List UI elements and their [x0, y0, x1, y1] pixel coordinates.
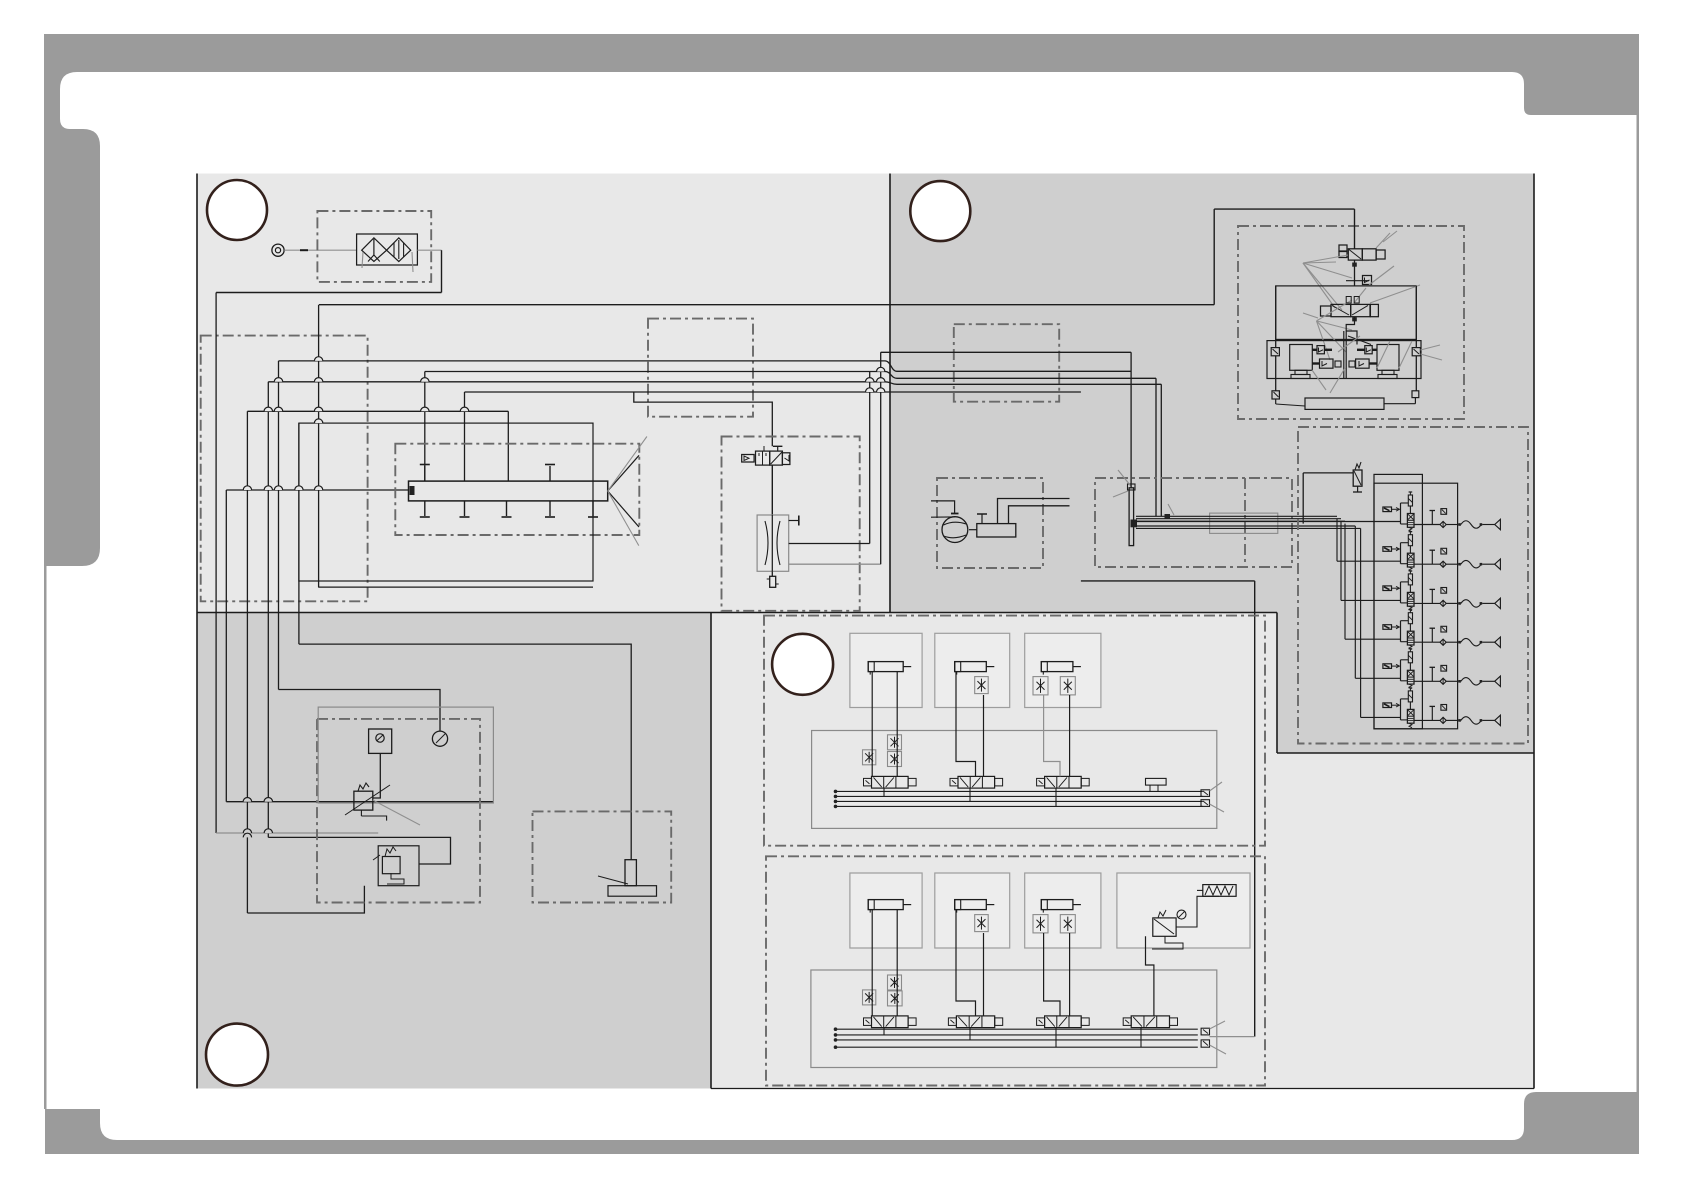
- nozzle dash-dot box: [533, 811, 672, 902]
- vacuum valve c: [1312, 359, 1341, 368]
- group2 valve 3: [1037, 1016, 1090, 1028]
- vacuum valve d: [1349, 359, 1377, 368]
- cylinder position ticks: [420, 465, 598, 518]
- dash-dot box left bundle: [201, 336, 368, 602]
- valve group V1 dash-dot box: [722, 437, 860, 611]
- group1 wires cylinders to valves: [872, 672, 1069, 807]
- wire bus A: [279, 361, 1132, 690]
- vacuum switch left: [1271, 348, 1279, 356]
- wire station risers: [1276, 286, 1417, 391]
- group2 sub-box A: [850, 873, 922, 948]
- cylinder B2: [955, 900, 995, 913]
- vacuum unit dash-dot box: [1238, 226, 1464, 419]
- vacuum switch right: [1412, 345, 1442, 360]
- wire jump bumps: [243, 357, 885, 838]
- node 2 circle: [910, 181, 970, 241]
- receiver tank: [969, 514, 1016, 537]
- valve bank dash-dot box: [1298, 427, 1528, 744]
- solenoid valve V2: [1303, 231, 1397, 263]
- group1 left flow controls: [863, 735, 902, 767]
- wire manifold bundle: [1136, 516, 1401, 528]
- wire filter output: [216, 250, 441, 292]
- cylinder C1b: [1041, 662, 1081, 675]
- dash-dot box top-middle-right: [954, 324, 1059, 402]
- cylinder A2: [868, 900, 911, 913]
- valve bank rect wide: [1374, 483, 1458, 729]
- wire feed to valve V2: [1354, 209, 1356, 249]
- check valve CV1: [1346, 260, 1394, 286]
- wire vertical x318: [318, 305, 320, 587]
- spring actuator D2: [1197, 885, 1236, 897]
- bank station 6: [1361, 528, 1501, 727]
- vacuum valve b: [1357, 346, 1377, 354]
- frame right thin line: [1637, 115, 1640, 1092]
- group2 bus lines: [834, 1027, 1198, 1049]
- wire cylinder left port line: [226, 490, 408, 802]
- schematic border lines: [197, 174, 1534, 1089]
- cylinder outer rect: [299, 423, 593, 581]
- group2 valve 4: [1123, 1016, 1177, 1028]
- regulator unit rect: [318, 707, 493, 803]
- bank station 3: [1341, 521, 1500, 611]
- bank station 2: [1337, 519, 1500, 572]
- cylinder C2: [1041, 900, 1081, 913]
- group2 sub-box C: [1025, 873, 1101, 948]
- node 1 circle: [207, 180, 267, 240]
- pump P1: [931, 501, 968, 543]
- wire down bundle to bottom-left: [216, 644, 631, 913]
- group2 sub-box D: [1117, 873, 1250, 948]
- filter unit F1 box: [317, 211, 431, 282]
- frame left thin line: [44, 566, 47, 1109]
- solenoid valve V3: [1303, 285, 1420, 318]
- manifold plate: [1113, 470, 1137, 546]
- wire bus B: [425, 372, 1156, 517]
- frame bottom band: [45, 1092, 1639, 1154]
- bank station 4: [1345, 524, 1500, 650]
- node 4 circle: [772, 634, 833, 695]
- cylinder assembly dash-dot box: [395, 444, 639, 535]
- muffler M1: [1272, 391, 1419, 410]
- wire group2 gray link: [1210, 1036, 1255, 1038]
- leader lines fan 2: [1317, 300, 1353, 360]
- group2 dash-dot box: [766, 856, 1265, 1085]
- group1 dash-dot box: [764, 616, 1265, 846]
- bank station 1: [1383, 492, 1501, 532]
- wire manifold risers: [1165, 504, 1175, 519]
- flow control B1: [975, 677, 989, 694]
- nozzle N1: [598, 860, 657, 897]
- flow control FC1: [757, 515, 799, 571]
- flow controls C1: [1033, 677, 1075, 695]
- cylinder B1: [955, 662, 995, 675]
- wire down-right bundle: [298, 423, 300, 644]
- schematic background bottom-middle light: [711, 613, 1534, 1089]
- ejector left: [1290, 345, 1313, 379]
- group1 manifold rect: [812, 731, 1217, 829]
- regulator R4: [373, 846, 419, 886]
- group2 wires cylinders to valves: [872, 910, 1154, 1048]
- wire to gauge branch: [215, 293, 217, 834]
- dash-dot box top-middle: [648, 319, 753, 417]
- vacuum station rect A: [1276, 286, 1417, 340]
- group2 left flow controls: [863, 975, 903, 1006]
- regulator R3: [345, 783, 420, 825]
- wire bus C: [268, 382, 1161, 838]
- manifold bundle rect: [1210, 513, 1278, 533]
- regulator R2: [1152, 896, 1219, 949]
- wire plate feed: [1130, 352, 1132, 488]
- pressure switch PS1: [369, 729, 392, 798]
- gauge G1: [432, 731, 447, 746]
- bank station 5: [1355, 526, 1500, 689]
- group1 valve 1: [864, 776, 917, 788]
- group1 sub-box C: [1025, 633, 1101, 707]
- leader lines fan 1: [1303, 255, 1352, 310]
- vacuum valve a: [1312, 346, 1332, 354]
- pump group dash-dot box: [937, 478, 1043, 568]
- wire main supply line: [319, 209, 1355, 305]
- flow control B2: [975, 915, 989, 932]
- group2 fittings: [1201, 1021, 1226, 1054]
- group1 sub-box A: [850, 633, 922, 707]
- air supply port: [272, 244, 284, 256]
- filter elements: [357, 234, 418, 272]
- solenoid valve V1: [742, 446, 790, 465]
- cylinder A1: [868, 662, 911, 675]
- schematic background top-right dark: [890, 174, 1534, 754]
- group1 fittings: [1201, 782, 1224, 812]
- group1 valve 2: [950, 776, 1003, 788]
- manifold inner dash-dot edge: [1244, 478, 1246, 567]
- wire port to filter: [284, 249, 356, 251]
- group1 bus lines: [834, 790, 1203, 809]
- group1 sub-box B: [935, 633, 1010, 707]
- vacuum station rect B: [1267, 341, 1421, 379]
- silencer S1: [767, 571, 779, 587]
- schematic background top-left light: [197, 174, 890, 613]
- schematic background bottom-left dark: [197, 613, 711, 1089]
- node 3 circle: [206, 1024, 268, 1086]
- flow controls C2: [1033, 915, 1075, 933]
- valve bank rect tall: [1374, 474, 1422, 728]
- group1 right box: [1146, 778, 1167, 791]
- station diagonals: [1312, 341, 1412, 393]
- group2 sub-box B: [935, 873, 1010, 948]
- group2 valve 1: [864, 1016, 917, 1028]
- wire valve to flow control: [771, 465, 773, 515]
- manifold dash-dot box: [1095, 478, 1292, 567]
- wire flow control outputs: [789, 352, 1131, 564]
- group2 manifold rect: [811, 970, 1217, 1068]
- ejector right: [1377, 345, 1399, 379]
- cylinder C1 body: [318, 481, 608, 587]
- cylinder rod cone: [608, 437, 647, 546]
- regulator unit dash-dot box: [317, 719, 480, 903]
- wire pump outputs: [998, 499, 1070, 524]
- regulator R1: [1303, 462, 1362, 524]
- wire long L to lower group: [1081, 581, 1255, 1037]
- page frame top band and left bar: [44, 34, 1639, 566]
- group1 valve 3: [1037, 776, 1090, 788]
- wire bus D: [465, 392, 1081, 481]
- group2 valve 2: [948, 1016, 1002, 1028]
- wire bus E: [247, 411, 508, 913]
